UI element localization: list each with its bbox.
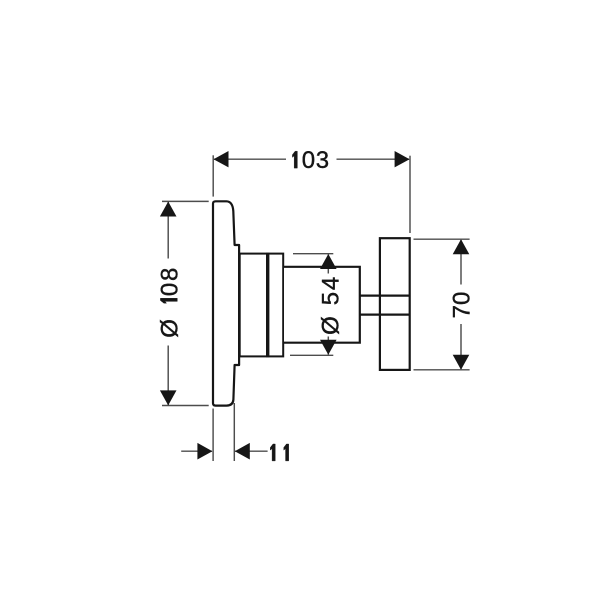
svg-text:70: 70 [448, 292, 475, 319]
arrow d54 top [320, 254, 337, 269]
label 11 [270, 444, 288, 461]
arrow 70 bottom [453, 355, 470, 370]
svg-text:Ø: Ø [317, 316, 344, 335]
arrow 103 left [214, 151, 229, 167]
dimension line 11 right [235, 450, 268, 452]
dimension line 70 [460, 240, 462, 285]
arrow 103 right [395, 151, 410, 167]
sleeve ring outer rect (diam 54) [240, 254, 284, 357]
label d54 [317, 275, 344, 335]
svg-text:Ø: Ø [156, 319, 183, 338]
extension line 11 right [233, 403, 235, 461]
label d108 [156, 266, 183, 338]
arrow d108 top [160, 202, 177, 217]
extension line d108 top [162, 200, 209, 202]
main cylinder body [284, 267, 360, 343]
arrow d108 bottom [160, 390, 177, 405]
dimension line 11 left [181, 450, 212, 452]
extension line d108 bottom [162, 405, 209, 407]
extension line d54 bottom [290, 354, 333, 356]
dimension line d108 [167, 202, 169, 259]
extension line d54 top [293, 253, 333, 255]
svg-text:54: 54 [317, 275, 344, 305]
escutcheon wall plate (side profile) [213, 201, 239, 405]
handle stem upper line [360, 295, 410, 297]
extension line 70 bottom [414, 369, 470, 371]
svg-text:08: 08 [156, 266, 183, 296]
arrow d54 bottom [320, 340, 337, 355]
cross handle (side view) [380, 238, 410, 370]
extension line 103 left [212, 155, 214, 196]
extension line 103 right [409, 156, 411, 233]
extension line 11 left [212, 409, 214, 462]
svg-text:03: 03 [302, 147, 330, 174]
handle stem lower line [360, 314, 410, 316]
sleeve ring divider line [266, 253, 269, 357]
dimension line 103 [214, 158, 286, 160]
dimension line d54 [327, 255, 329, 274]
label 103 [292, 147, 329, 174]
arrow 70 top [453, 239, 470, 254]
extension line 70 top [414, 238, 470, 240]
arrow 11 right [235, 443, 250, 460]
arrow 11 left [197, 443, 212, 460]
